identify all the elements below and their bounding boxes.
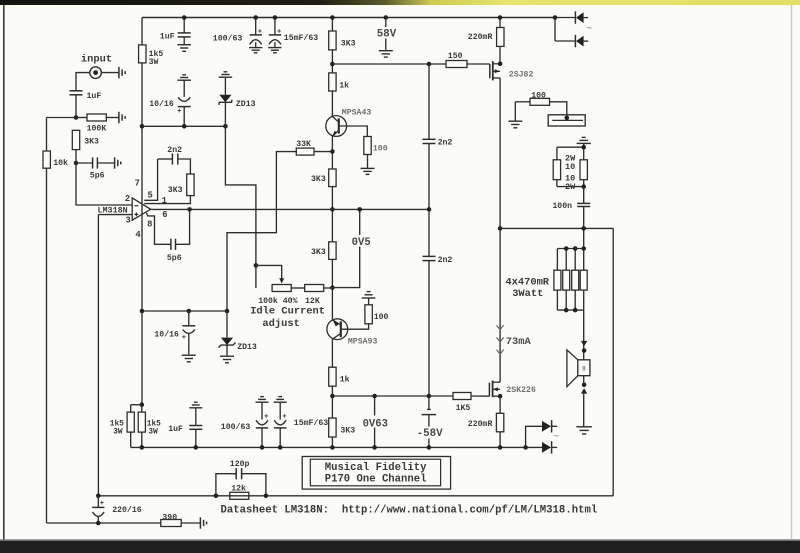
label 1uF bottom <box>168 425 183 434</box>
label 100/63 top <box>213 33 243 43</box>
wire 2W10 top <box>557 143 584 159</box>
junction speaker top <box>582 348 587 353</box>
wire 1k lower down <box>331 386 333 396</box>
ground ZD13 bottom <box>220 356 234 363</box>
svg-text:4x470mR: 4x470mR <box>505 276 549 288</box>
ground speaker <box>576 427 592 434</box>
label ZD13 top <box>236 100 256 109</box>
svg-text:58V: 58V <box>377 29 397 41</box>
label 15mF/63 bottom <box>294 418 328 428</box>
zener ZD13 bottom <box>219 311 236 355</box>
current arrows 73mA <box>497 325 504 354</box>
junction ZD13/y126 <box>223 124 228 129</box>
label 390 <box>162 513 177 522</box>
junction 0V63/rail <box>372 445 377 450</box>
wire center column upper <box>331 18 333 117</box>
wire bank bottom bar <box>557 290 583 310</box>
svg-text:2n2: 2n2 <box>167 146 182 155</box>
wire bank top bar <box>557 249 583 271</box>
wire 220mR top <box>499 18 501 65</box>
junction y64 left <box>330 62 335 67</box>
wire 3K3b down <box>331 259 333 319</box>
wire 100 Q2 up <box>368 298 370 305</box>
junction gate2 left <box>330 394 335 399</box>
resistor 3K3 rail-a <box>329 31 336 50</box>
op-amp plus <box>134 213 138 217</box>
label 3K3 input <box>84 138 99 147</box>
wire Q2 base <box>341 324 369 329</box>
junction 120p right <box>264 494 269 499</box>
svg-text:1: 1 <box>162 196 167 206</box>
right page edge <box>791 5 793 540</box>
ground 2W10 (up) <box>577 137 591 143</box>
label LM318N <box>98 206 128 216</box>
label 1k lower <box>340 375 350 385</box>
svg-text:0V63: 0V63 <box>363 418 388 430</box>
svg-text:100K: 100K <box>87 125 107 134</box>
wire 3K3a to out <box>331 187 333 242</box>
svg-text:100: 100 <box>531 92 546 101</box>
trimmer 100k <box>272 285 291 292</box>
mosfet Q4 2SK226 <box>489 381 500 398</box>
label input <box>81 54 112 66</box>
svg-text:10: 10 <box>565 162 575 172</box>
resistor 470mR a <box>554 270 561 290</box>
label 1uF top <box>160 33 175 42</box>
wire output rail <box>499 78 501 382</box>
resistor 1K5 gate <box>453 393 471 400</box>
resistor 12k <box>230 492 249 499</box>
svg-text:6: 6 <box>162 210 167 220</box>
diode D2 <box>575 35 588 47</box>
wire 2n2 fb left <box>158 158 173 160</box>
label 100 block <box>531 92 546 101</box>
title line 2 <box>325 473 427 485</box>
ground 100/63 top <box>249 48 262 53</box>
label 2n2 lower <box>438 256 453 265</box>
wire 33K to Q1 <box>314 151 332 153</box>
junction 220mR top <box>498 15 503 20</box>
capacitor 10/16 top <box>177 75 191 127</box>
ground 100 block <box>508 121 522 128</box>
node 58V <box>384 15 389 20</box>
svg-text:8: 8 <box>147 220 152 230</box>
junction 10/16/y126 <box>182 124 187 129</box>
capacitor 100/63 bottom <box>256 397 269 448</box>
diode D3 inline <box>542 441 557 453</box>
wire zigzag ZD13 to trimmer <box>225 126 256 288</box>
svg-text:120p: 120p <box>230 460 250 469</box>
wire Q2 collector down <box>331 339 333 367</box>
wire 100 to fuse <box>550 102 567 119</box>
svg-text:4: 4 <box>135 230 141 240</box>
wire pin8 5p6 loop <box>146 213 171 244</box>
svg-text:12k: 12k <box>231 483 246 493</box>
label 100n <box>552 202 572 211</box>
label ZD13 bottom <box>237 343 257 352</box>
resistor 3K3 bottom <box>329 396 336 447</box>
label 0V63 <box>363 416 389 431</box>
label MPSA93 <box>348 338 378 347</box>
svg-text:100: 100 <box>374 313 389 322</box>
svg-text:1uF: 1uF <box>160 33 175 42</box>
ground 5p6 <box>115 157 121 168</box>
wire 220mR bottom <box>499 396 501 447</box>
wire y495.8 <box>98 495 613 497</box>
capacitor 2n2 feedback <box>172 153 177 164</box>
wire 2n2 column <box>428 64 430 396</box>
capacitor 5p6 feedback <box>171 239 176 250</box>
resistor 100 block <box>530 98 550 105</box>
svg-text:33K: 33K <box>296 140 311 149</box>
label 2n2 feedback <box>167 146 182 155</box>
mosfet Q3 2SJ82 <box>490 61 500 80</box>
svg-text:2SK226: 2SK226 <box>506 386 536 395</box>
svg-text:Idle Current: Idle Current <box>250 306 325 318</box>
diode D1 <box>575 11 588 23</box>
wire 1k5 pair top <box>131 405 142 412</box>
label 100K <box>87 125 107 134</box>
plus 100/63 bottom <box>264 414 268 418</box>
ground 58V <box>379 51 393 57</box>
diode D4 <box>542 420 557 432</box>
capacitor 5p6 input <box>93 157 98 168</box>
label 2n2 upper <box>438 139 453 148</box>
label 3Watt <box>512 288 543 300</box>
resistor 1k5 3W (R on +rail) <box>139 45 146 63</box>
node input bias <box>74 115 79 120</box>
junction bank b1 <box>564 308 569 313</box>
label 120p <box>230 460 250 469</box>
svg-text:100: 100 <box>373 145 388 154</box>
pin 2 <box>125 194 130 204</box>
svg-text:adjust: adjust <box>262 318 299 330</box>
resistor 220mR top <box>497 28 504 47</box>
wire jack left + down <box>76 73 90 91</box>
plus 100/63 top <box>258 29 262 33</box>
wire 5p6 fb right <box>176 209 190 244</box>
wire pin3 input <box>98 214 132 216</box>
plus 10/16 top <box>178 109 182 113</box>
op-amp U1 LM318N <box>132 198 150 220</box>
wire 1k5 pair bottom <box>131 432 142 447</box>
svg-text:100n: 100n <box>552 202 572 211</box>
label datasheet <box>221 504 598 516</box>
label 3K3 feedback <box>168 186 183 195</box>
junction y311 left <box>140 309 145 314</box>
junction D4 branch <box>523 445 528 450</box>
svg-text:3K3: 3K3 <box>341 40 356 49</box>
wire +58V top rail <box>142 17 555 19</box>
svg-text:100/63: 100/63 <box>213 33 243 43</box>
junction 0V63 top <box>372 394 377 399</box>
svg-text:10/16: 10/16 <box>154 330 179 340</box>
svg-text:Datasheet LM318N: http://www.: Datasheet LM318N: http://www.national.co… <box>221 504 598 516</box>
ground 100 Q1 <box>361 168 375 174</box>
label 3K3 rail-a <box>341 40 356 49</box>
title box <box>302 457 450 490</box>
svg-text:390: 390 <box>162 513 177 522</box>
junction 100/63/rail <box>260 445 265 450</box>
resistor 470mR b <box>563 270 570 290</box>
wire idle sense <box>227 152 296 311</box>
svg-text:2SJ82: 2SJ82 <box>509 71 534 80</box>
capacitor 100n <box>577 203 590 248</box>
wire 100 Q1 to gnd <box>367 155 369 169</box>
pin 6 <box>162 210 167 220</box>
plus 15mF bottom <box>283 414 287 418</box>
resistor 12K <box>305 285 324 292</box>
junction 3K3/rail <box>330 445 335 450</box>
ground input jack <box>119 67 125 78</box>
junction 2W10 top <box>581 145 586 150</box>
svg-text:Musical Fidelity: Musical Fidelity <box>325 462 427 474</box>
pin 8 <box>147 220 152 230</box>
resistor 470mR c <box>572 270 579 290</box>
wire jack to ground <box>101 72 119 74</box>
label 5p6 feedback <box>167 254 182 263</box>
label 1k5 3W <box>149 49 164 67</box>
junction rail/220mRb <box>498 445 503 450</box>
input jack J1 <box>90 67 102 79</box>
svg-text:0V5: 0V5 <box>352 237 371 249</box>
svg-text:1uF: 1uF <box>87 92 102 101</box>
svg-text:73mA: 73mA <box>506 336 532 348</box>
label 1k upper <box>339 80 349 90</box>
capacitor 220/16 <box>92 496 104 523</box>
ground 10/16 bottom <box>182 355 196 362</box>
wire +rail vertical x142 <box>141 18 143 405</box>
resistor 150 <box>446 61 467 68</box>
svg-text:8: 8 <box>582 365 586 372</box>
junction fuse <box>565 116 570 121</box>
label 10/16 bottom <box>154 330 179 340</box>
label 4x470mR <box>505 276 549 288</box>
junction 100/63 top <box>253 15 258 20</box>
label 0V5 <box>351 235 372 249</box>
wire 2n2 fb right <box>178 159 191 174</box>
junction 2n2 top <box>427 62 432 67</box>
junction Q3 drain <box>498 62 503 67</box>
svg-text:3K3: 3K3 <box>340 426 355 435</box>
wire 3K3 to node2 <box>75 150 77 163</box>
capacitor 100/63 top <box>250 18 262 48</box>
junction -rail top <box>140 402 145 407</box>
junction out/center <box>330 207 335 212</box>
title line 1 <box>325 462 427 474</box>
svg-text:10k: 10k <box>53 158 68 168</box>
trimmer wiper arrow <box>279 278 284 283</box>
svg-text:220mR: 220mR <box>468 420 493 429</box>
plus 15mF top <box>277 29 281 33</box>
junction idle node <box>330 285 335 290</box>
junction diode branch <box>553 15 558 20</box>
svg-text:input: input <box>81 54 112 66</box>
svg-text:1k5: 1k5 <box>147 420 161 428</box>
label 2SJ82 <box>509 71 534 80</box>
svg-text:1k: 1k <box>340 375 350 385</box>
capacitor 2n2 upper <box>423 139 436 143</box>
wire node2 to pin2 <box>76 163 132 205</box>
label 5p6 input <box>90 172 105 181</box>
svg-text:3W: 3W <box>148 428 158 436</box>
label 58V <box>377 29 397 41</box>
svg-text:12K: 12K <box>305 297 320 306</box>
junction trimmer loop <box>254 263 259 268</box>
label 73mA <box>506 336 532 348</box>
ground 100K <box>119 112 125 123</box>
svg-text:2n2: 2n2 <box>438 139 453 148</box>
label 33K <box>296 140 311 149</box>
junction 15mF top <box>273 15 278 20</box>
junction 2n2/output <box>427 207 432 212</box>
svg-text:~: ~ <box>587 24 592 34</box>
ground 15mF top <box>268 48 281 53</box>
svg-text:3W: 3W <box>149 58 159 67</box>
resistor 100 Q2 <box>365 305 372 324</box>
capacitor 2n2 lower <box>423 256 436 260</box>
label 3K3 mid-a <box>311 175 326 184</box>
capacitor 10/16 bottom <box>182 309 195 355</box>
svg-text:ZD13: ZD13 <box>237 343 257 352</box>
junction 3K3a top <box>330 15 335 20</box>
wire gate2 y396 <box>332 395 489 397</box>
svg-text:2W: 2W <box>565 182 576 192</box>
svg-text:5: 5 <box>148 190 153 200</box>
label 3K3 mid-b <box>311 248 326 257</box>
junction 1uF/rail <box>194 445 199 450</box>
capacitor 1uF input <box>70 91 83 95</box>
junction Q1 emitter/33K <box>330 149 335 154</box>
svg-text:5p6: 5p6 <box>167 254 182 263</box>
svg-text:1K5: 1K5 <box>456 404 471 413</box>
label 10k <box>53 158 68 168</box>
wire node-100K <box>76 117 87 119</box>
svg-text:100/63: 100/63 <box>221 422 251 432</box>
junction 120p left <box>214 494 219 499</box>
wire speaker top <box>583 310 585 360</box>
svg-text:-58V: -58V <box>417 428 443 440</box>
wire node left to 10k <box>47 117 77 119</box>
junction 0V5 top <box>357 207 362 212</box>
resistor 100K <box>87 114 106 121</box>
svg-text:2n2: 2n2 <box>438 256 453 265</box>
resistor 220mR bottom <box>496 413 503 432</box>
label 12k <box>231 483 246 493</box>
junction -58V top <box>427 394 432 399</box>
svg-text:3K3: 3K3 <box>311 175 326 184</box>
svg-text:3K3: 3K3 <box>84 138 99 147</box>
tilde D1 <box>587 24 592 34</box>
wire 0V5 link <box>332 209 359 287</box>
capacitor 15mF/63 top <box>269 18 281 48</box>
junction rail/output <box>498 226 503 231</box>
resistor 390 <box>161 520 181 527</box>
svg-text:MPSA93: MPSA93 <box>348 338 378 347</box>
svg-text:3K3: 3K3 <box>311 248 326 257</box>
label 220mR top <box>468 33 493 42</box>
junction fb left <box>96 494 101 499</box>
wire bottom rail <box>131 446 542 448</box>
resistor 1k upper <box>329 73 336 91</box>
labels 1k5 3W pair <box>110 420 161 436</box>
transistor Q2 MPSA93 <box>327 319 348 340</box>
resistor 100 Q1 <box>364 137 371 155</box>
svg-text:ZD13: ZD13 <box>236 100 256 109</box>
resistor 33K <box>296 148 314 155</box>
top border bar <box>0 0 800 7</box>
label Idle Current <box>250 306 325 318</box>
svg-text:3K3: 3K3 <box>168 186 183 195</box>
tilde D4 <box>554 432 559 442</box>
wire pin5 stub <box>144 159 157 200</box>
label 2SK226 <box>506 386 536 395</box>
wire cap to node <box>75 95 77 118</box>
svg-text:3: 3 <box>126 216 131 226</box>
transistor Q1 MPSA43 <box>326 116 347 137</box>
cell -58V <box>422 396 437 447</box>
pin 5 <box>148 190 153 200</box>
wire output y228.4 <box>500 227 613 229</box>
ground 390 <box>200 517 206 528</box>
speaker LS <box>567 350 590 387</box>
resistor 470mR d <box>580 270 587 290</box>
pin 7 <box>135 178 140 188</box>
ground 100 Q2 (up) <box>362 292 376 298</box>
label adjust <box>262 318 299 330</box>
svg-text:7: 7 <box>135 178 140 188</box>
svg-text:1k: 1k <box>339 80 349 90</box>
capacitor 120p loop <box>216 468 266 496</box>
svg-text:MPSA43: MPSA43 <box>342 109 372 118</box>
resistor 1k lower <box>329 367 336 386</box>
wire y311 <box>142 310 227 312</box>
pin 3 <box>126 216 131 226</box>
wire 100 gate block <box>515 102 530 121</box>
junction bank b2 <box>573 308 578 313</box>
junction speaker bottom <box>582 382 587 387</box>
pin 4 <box>135 230 141 240</box>
wire feedback column x98 <box>97 215 99 496</box>
wire wiper loop <box>256 265 282 279</box>
label 1uF input <box>87 92 102 101</box>
resistor 3K3 mid-a <box>329 169 336 187</box>
svg-text:220mR: 220mR <box>468 33 493 42</box>
label 12K <box>305 297 320 306</box>
wire Q1 emitter down <box>331 136 333 169</box>
wire 10k column <box>46 118 48 524</box>
resistor 10 2W left <box>553 160 560 180</box>
wire y64 <box>332 63 489 65</box>
wire 58V stem <box>385 18 387 51</box>
label 1K5 gate <box>456 404 471 413</box>
label MPSA43 <box>342 109 372 118</box>
label 100 Q1 <box>373 145 388 154</box>
label 100/63 bottom <box>221 422 251 432</box>
labels 2W 10 <box>565 153 576 192</box>
svg-text:2: 2 <box>125 194 130 204</box>
junction +rail/y126 <box>140 124 145 129</box>
plus 10/16 bottom <box>182 335 186 339</box>
capacitor 1uF rail top <box>178 18 191 45</box>
op-amp minus <box>135 205 139 207</box>
junction Q4 source <box>498 394 503 399</box>
junction bank t3 <box>581 246 586 251</box>
junction 100n/output <box>581 226 586 231</box>
wire 2W10 bottom <box>557 180 584 203</box>
resistor 3K3 feedback <box>187 174 194 196</box>
svg-text:15mF/63: 15mF/63 <box>294 418 328 428</box>
